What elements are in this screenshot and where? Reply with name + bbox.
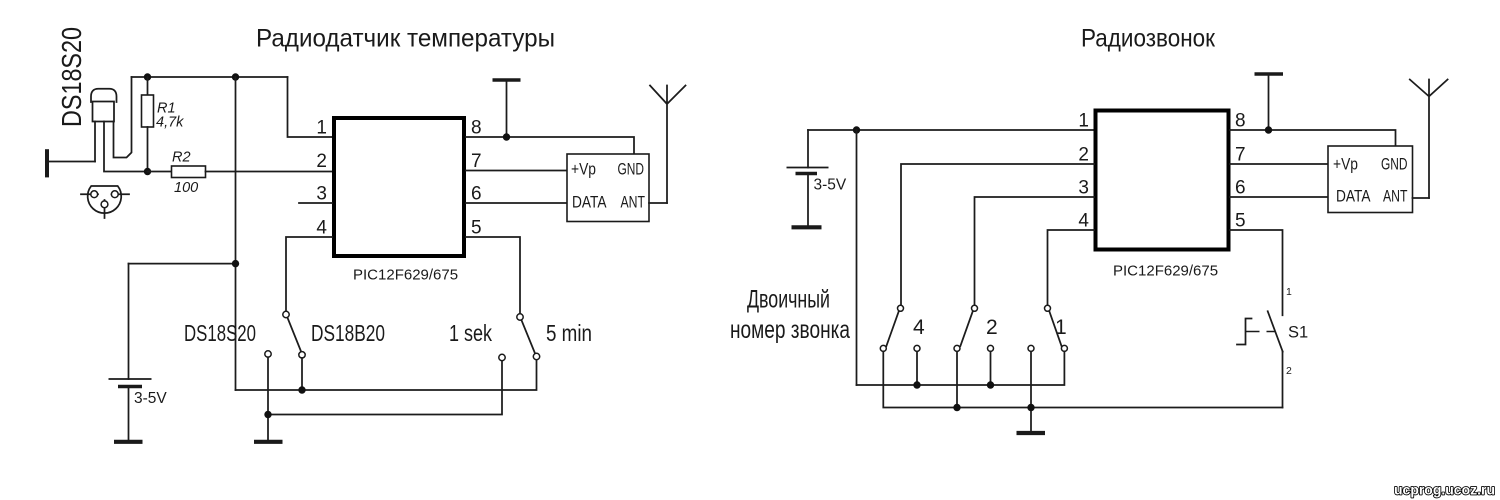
ground rail (left throws, to S1)	[883, 352, 1282, 408]
svg-text:100: 100	[174, 180, 198, 196]
junction S2 right	[987, 381, 994, 388]
svg-text:GND: GND	[618, 160, 645, 179]
pushbutton S1	[1237, 311, 1283, 407]
svg-text:8: 8	[471, 118, 482, 139]
ground under SW1	[254, 440, 283, 444]
wire R2 to pin2	[206, 171, 333, 173]
svg-text:3-5V: 3-5V	[814, 177, 847, 194]
switch column from pin1 junction	[856, 130, 858, 385]
ground under battery B2	[792, 225, 822, 229]
wire SW1 right throw down	[301, 358, 303, 390]
junction pin8/power	[503, 133, 510, 140]
TO-92 bottom view outline	[88, 186, 122, 213]
wire pin8 to module GND	[466, 137, 634, 154]
svg-text:номер звонка: номер звонка	[730, 316, 850, 344]
svg-text:2: 2	[1286, 365, 1292, 377]
resistor R1	[147, 77, 149, 95]
svg-text:+Vp: +Vp	[571, 160, 596, 179]
wire pin8 to module GND (right)	[1230, 130, 1396, 146]
resistor R2	[148, 171, 172, 173]
svg-text:1: 1	[1286, 286, 1292, 298]
svg-text:8: 8	[1235, 111, 1246, 132]
wire S2 right throw down	[990, 352, 992, 386]
svg-text:4: 4	[1078, 211, 1089, 232]
svg-text:DS18B20: DS18B20	[311, 320, 385, 346]
wire module ANT to antenna	[649, 202, 667, 204]
svg-text:4: 4	[316, 218, 327, 239]
junction R1 bottom / data line	[144, 168, 151, 175]
sensor DS18S20 (TO-92 side view) body	[91, 89, 116, 122]
svg-text:PIC12F629/675: PIC12F629/675	[353, 267, 458, 284]
svg-text:4,7k: 4,7k	[156, 115, 184, 131]
svg-text:3: 3	[316, 184, 327, 205]
svg-text:5: 5	[471, 218, 482, 239]
svg-text:3: 3	[1078, 178, 1089, 199]
svg-text:4: 4	[913, 316, 925, 339]
switch SW1 (DS18S20/DS18B20)	[265, 311, 305, 358]
wire S2 left throw down	[956, 352, 958, 408]
svg-text:DATA: DATA	[572, 193, 607, 212]
wire pin6 to module DATA	[466, 202, 567, 204]
switch S3 (bit 1)	[1028, 305, 1067, 351]
radio module (left)	[567, 154, 649, 222]
svg-text:5 min: 5 min	[546, 320, 592, 346]
battery B1 3-5V	[109, 264, 152, 441]
wire pin2 to switch 4	[901, 164, 1094, 306]
svg-text:DATA: DATA	[1336, 187, 1371, 206]
svg-text:7: 7	[471, 151, 482, 172]
bottom view pin circles	[91, 191, 98, 198]
junction pin1/switch column	[853, 126, 860, 133]
ground rail (to 1 sek throw)	[268, 361, 502, 415]
svg-text:DS18S20: DS18S20	[56, 27, 87, 127]
bottom view pin leads	[81, 193, 98, 195]
battery tap wire	[129, 263, 236, 265]
bottom VCC rail (to 5 min throw)	[236, 360, 537, 390]
power bar symbol (top, +V)	[493, 78, 521, 82]
svg-text:R2: R2	[172, 150, 191, 166]
svg-text:ucprog.ucoz.ru: ucprog.ucoz.ru	[1394, 482, 1495, 498]
VCC rail to right throws	[857, 352, 1065, 386]
wire pin7 to module +Vp (right)	[1230, 163, 1328, 165]
svg-text:2: 2	[316, 151, 327, 172]
wire S4 right throw down	[916, 352, 918, 386]
junction battery tap	[232, 260, 239, 267]
junction S3 left	[1027, 404, 1034, 411]
junction VCC/battery column top	[232, 73, 239, 80]
junction S4 right	[913, 381, 920, 388]
svg-text:1: 1	[316, 118, 327, 139]
switch SW2 (1 sek / 5 min)	[499, 314, 540, 361]
junction above R1	[144, 73, 151, 80]
ground symbol bottom	[1017, 431, 1046, 435]
svg-text:Радиозвонок: Радиозвонок	[1081, 25, 1216, 53]
svg-text:1: 1	[1078, 111, 1089, 132]
svg-text:Двоичный: Двоичный	[747, 286, 830, 314]
wire pin3 to switch 2	[975, 197, 1095, 306]
antenna (left)	[650, 86, 686, 204]
IC U1 PIC12F629/675	[334, 118, 464, 256]
IC U2 PIC12F629/675	[1096, 111, 1229, 250]
svg-text:1 sek: 1 sek	[449, 320, 492, 346]
wire pin7 to module +Vp	[466, 170, 567, 172]
svg-text:+Vp: +Vp	[1333, 155, 1358, 174]
wire pin1 riser	[288, 77, 333, 137]
wire pin4 to switch 1	[1048, 230, 1095, 306]
svg-text:6: 6	[471, 184, 482, 205]
junction pin8/power (right)	[1265, 126, 1272, 133]
wire SW1 left throw to ground rail	[267, 357, 269, 440]
junction S2 left	[953, 404, 960, 411]
svg-text:ANT: ANT	[621, 193, 646, 212]
VCC column down to bottom rail	[235, 77, 237, 390]
sensor lead DQ (middle)	[104, 122, 148, 172]
wire pin6 to module DATA (right)	[1230, 196, 1328, 198]
wire pin5 to SW2	[466, 237, 520, 314]
wire terminal to sensor gnd lead	[49, 161, 95, 163]
antenna (right)	[1410, 80, 1448, 199]
svg-text:2: 2	[1078, 145, 1089, 166]
wire module ANT to antenna (right)	[1413, 197, 1430, 199]
junction SW1 right throw	[298, 386, 305, 393]
wire S3 left throw to ground	[1030, 352, 1032, 432]
svg-text:Радиодатчик температуры: Радиодатчик температуры	[256, 25, 555, 53]
svg-text:DS18S20: DS18S20	[184, 320, 256, 346]
terminal contact bar (left probe terminal)	[45, 149, 49, 177]
sensor lead GND (left)	[94, 122, 96, 162]
svg-text:7: 7	[1235, 145, 1246, 166]
battery B2 3-5V	[787, 130, 829, 226]
switch S2 (bit 2)	[954, 305, 994, 351]
svg-text:PIC12F629/675: PIC12F629/675	[1113, 263, 1218, 280]
svg-text:S1: S1	[1288, 324, 1308, 342]
switch S4 (bit 4)	[880, 305, 920, 351]
sensor lead VDD (right)	[114, 77, 132, 158]
ground under battery	[114, 440, 143, 444]
wire battery+ to pin1	[808, 129, 1094, 131]
svg-text:6: 6	[1235, 178, 1246, 199]
svg-text:2: 2	[986, 316, 998, 339]
svg-text:3-5V: 3-5V	[134, 390, 167, 407]
pin 3 stub	[299, 202, 332, 204]
junction ground rail	[264, 411, 271, 418]
svg-text:GND: GND	[1381, 155, 1408, 174]
svg-text:ANT: ANT	[1383, 187, 1408, 206]
svg-text:5: 5	[1235, 211, 1246, 232]
wire pin4 to SW1	[286, 237, 332, 311]
power bar symbol (top, +V right)	[1255, 72, 1284, 76]
top VCC rail	[132, 76, 288, 78]
radio module (right)	[1328, 146, 1413, 213]
svg-text:1: 1	[1055, 316, 1067, 339]
wire pin5 to S1	[1230, 230, 1283, 315]
